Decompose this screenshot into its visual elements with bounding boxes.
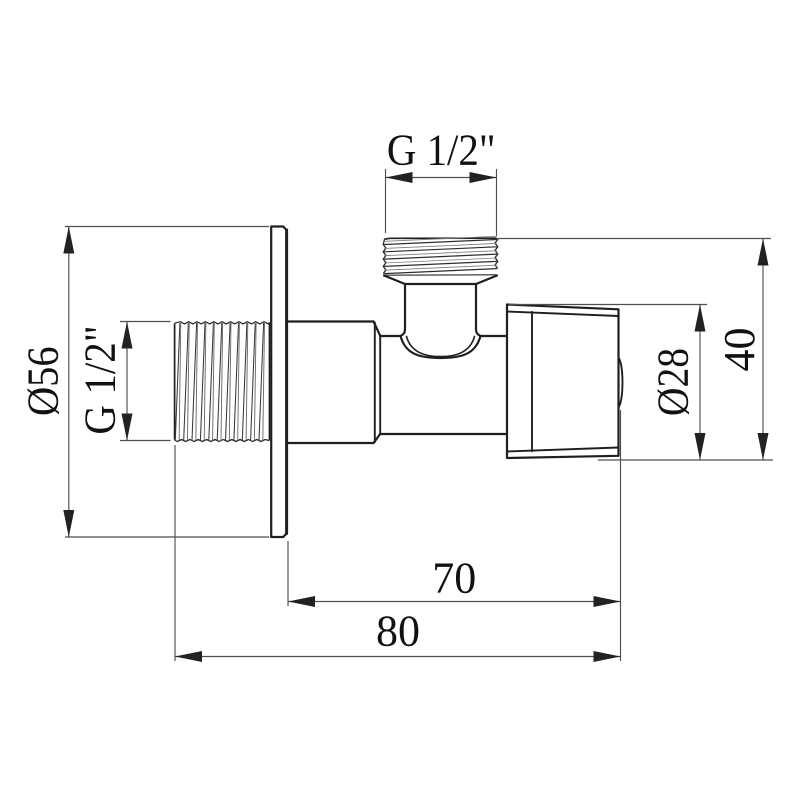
arrow top G1/2 left	[386, 172, 413, 183]
dim line G1/2-2	[126, 322, 128, 441]
ext line top G1/2 left	[385, 169, 387, 233]
ext line 70/80 right	[620, 410, 622, 661]
wall flange plate	[271, 227, 287, 538]
top thread flank lines light	[384, 236, 497, 270]
ext line right bottom shared	[598, 459, 773, 461]
arrow 80 left	[175, 651, 202, 662]
narrow body left edge	[379, 336, 381, 434]
wall flange right face edge	[285, 230, 288, 534]
handle face arc	[619, 358, 623, 408]
narrow body top line right of dome	[481, 335, 508, 337]
arrow 70 right	[594, 596, 621, 607]
ext line G1/2-2 bottom	[120, 440, 171, 442]
top thread right crest edge	[495, 238, 498, 268]
branch neck right	[476, 284, 481, 336]
arrow 40 down	[758, 433, 769, 460]
dome inner arc	[407, 337, 475, 357]
left thread flank lines light	[179, 323, 264, 440]
arrow top G1/2 right	[470, 172, 497, 183]
left thread root edge at flange	[268, 323, 270, 441]
body wide section bottom line	[287, 442, 374, 444]
svg-text:40: 40	[715, 328, 764, 372]
dim line 40	[762, 239, 764, 461]
left thread bottom crest edge	[175, 440, 270, 442]
ext line 80 left	[174, 445, 176, 661]
svg-text:70: 70	[432, 554, 476, 603]
dim line 80	[175, 656, 621, 658]
body end-face edge	[374, 323, 376, 443]
ext line 70 left	[287, 541, 289, 606]
top thread top edge	[385, 238, 497, 239]
ext line D56 bottom	[65, 536, 269, 538]
ext line G1/2-2 top	[120, 321, 171, 323]
arrowheads	[63, 172, 768, 662]
svg-text:Ø28: Ø28	[650, 348, 698, 416]
arrow 80 right	[594, 651, 621, 662]
ext line 40 top	[498, 238, 771, 240]
ext line top G1/2 right	[496, 169, 498, 236]
branch chamfer below thread	[384, 276, 497, 285]
svg-text:G 1/2": G 1/2"	[76, 325, 125, 434]
handle inner bottom edge	[507, 448, 619, 452]
left thread end face edge	[174, 324, 176, 440]
svg-text:80: 80	[376, 607, 420, 656]
left thread top crest edge	[175, 322, 270, 324]
dim line 70	[288, 601, 621, 603]
handle skirt line	[531, 312, 533, 451]
branch neck left	[401, 284, 406, 336]
top thread bottom edge	[385, 274, 497, 276]
body shoulder chamfer top	[374, 322, 381, 336]
handle outline	[507, 305, 619, 459]
arrow D56 down	[63, 510, 74, 537]
arrow G1/2-2 up	[122, 322, 133, 349]
arrow D56 up	[63, 227, 74, 254]
body shoulder chamfer bottom	[374, 434, 381, 443]
left thread flank lines dark	[175, 323, 263, 440]
arrow 70 left	[288, 596, 315, 607]
dim line D28	[699, 305, 701, 461]
svg-text:Ø56: Ø56	[19, 346, 68, 416]
narrow body top line	[380, 335, 400, 337]
body wide section top line	[287, 320, 374, 322]
handle inner top edge	[507, 312, 619, 317]
arrow D28 up	[695, 305, 706, 332]
svg-text:G 1/2": G 1/2"	[387, 126, 496, 175]
dim line top G1/2	[386, 177, 497, 179]
dome outer arc	[401, 336, 481, 358]
arrow G1/2-2 down	[122, 414, 133, 441]
arrow 40 up	[758, 239, 769, 266]
ext line D28 top	[509, 304, 707, 306]
dim line D56	[68, 227, 70, 538]
top thread flank lines dark	[384, 240, 497, 274]
top thread left crest edge	[383, 239, 386, 274]
narrow body bottom line	[380, 433, 507, 435]
ext line D56 top	[65, 226, 269, 228]
arrow D28 down	[695, 433, 706, 460]
